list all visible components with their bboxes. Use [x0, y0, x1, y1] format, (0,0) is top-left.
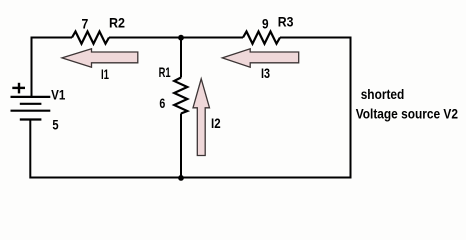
wire right side [350, 37, 352, 179]
resistor R2 [72, 32, 109, 44]
wire top-left segment [31, 37, 73, 39]
current arrow I2 [193, 79, 210, 156]
wire middle branch lower [180, 114, 182, 179]
battery V1 plus sign [12, 87, 25, 89]
svg-text:7: 7 [82, 17, 89, 32]
wire left upper (to battery) [31, 37, 33, 97]
svg-text:6: 6 [159, 96, 165, 111]
svg-text:I1: I1 [101, 67, 109, 82]
wire left lower (battery to bottom) [29, 120, 31, 179]
svg-text:9: 9 [262, 16, 269, 31]
resistor R1 [174, 78, 187, 114]
wire bottom [31, 177, 352, 179]
svg-text:V1: V1 [51, 88, 66, 103]
battery V1 plate long 2 [11, 110, 51, 112]
svg-text:I3: I3 [261, 66, 270, 81]
battery V1 plate short 2 [20, 118, 42, 120]
svg-text:R1: R1 [159, 65, 171, 80]
wire middle branch upper [180, 38, 182, 78]
battery V1 plate long 1 [11, 96, 51, 98]
svg-text:Voltage source V2: Voltage source V2 [356, 106, 458, 122]
node junction top [178, 35, 184, 41]
wire top-right segment [280, 37, 352, 39]
node junction bottom [178, 175, 184, 181]
svg-text:R3: R3 [278, 14, 294, 29]
svg-text:5: 5 [52, 117, 59, 132]
svg-text:I2: I2 [211, 116, 221, 131]
svg-text:shorted: shorted [361, 86, 405, 102]
wire top-middle segment [109, 37, 243, 39]
resistor R3 [243, 32, 280, 44]
current arrow I1 [62, 49, 138, 67]
battery V1 plate short 1 [20, 103, 42, 105]
svg-text:R2: R2 [109, 16, 125, 31]
current arrow I3 [222, 49, 298, 67]
